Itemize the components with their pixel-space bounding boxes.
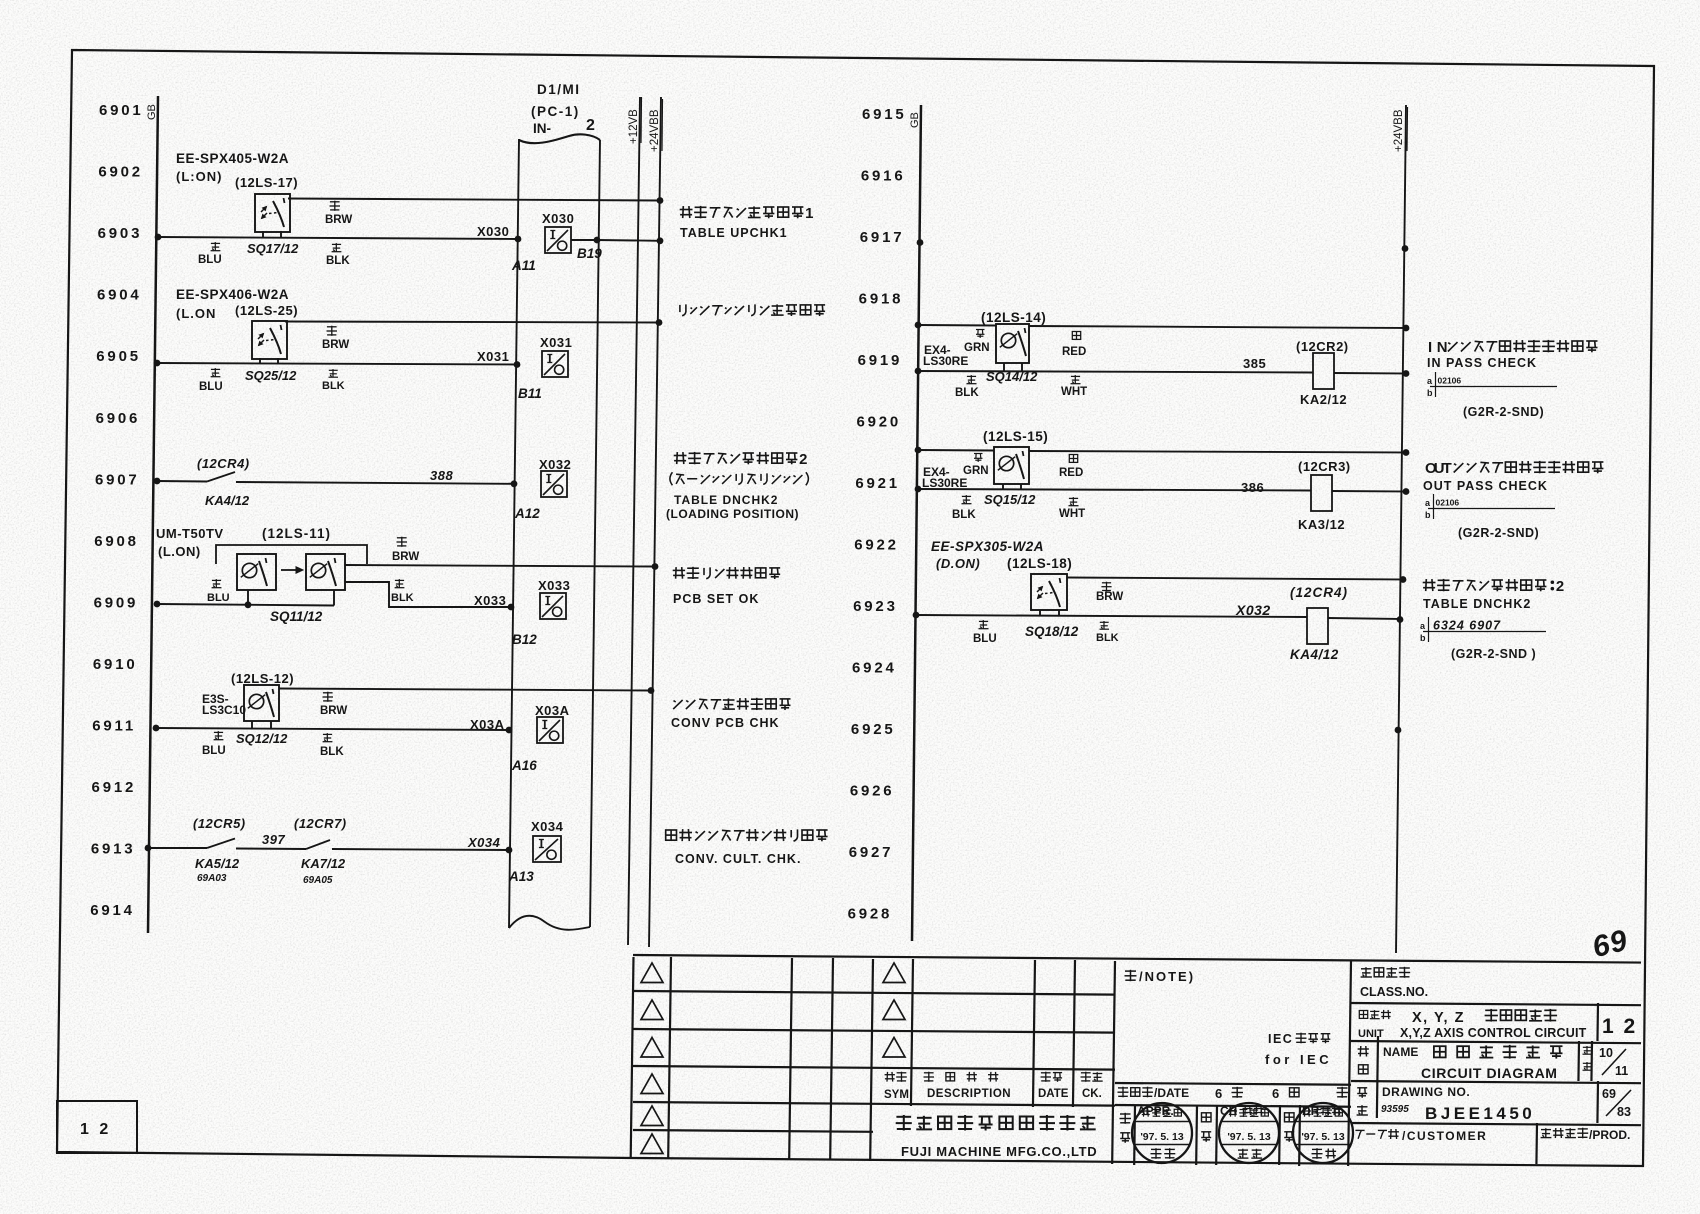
svg-text:CONV PCB CHK: CONV PCB CHK	[671, 716, 780, 730]
wire 6913 c	[332, 849, 509, 850]
sheet number box 12	[57, 1101, 137, 1153]
svg-text:for IEC: for IEC	[1265, 1052, 1332, 1067]
svg-text:X033: X033	[538, 578, 570, 593]
node X034	[506, 847, 513, 854]
label 10/11	[1599, 1046, 1628, 1078]
row label 6928	[848, 906, 893, 923]
svg-text:EE-SPX305-W2A: EE-SPX305-W2A	[931, 539, 1044, 554]
wire 6923 top	[1067, 578, 1403, 580]
svg-text:A13: A13	[508, 869, 534, 884]
wire 6907 a	[157, 480, 207, 483]
label D1/MI	[537, 82, 581, 97]
class v 1351	[1348, 961, 1351, 1166]
svg-text:11: 11	[1615, 1064, 1628, 1078]
label (PC-1)	[531, 104, 580, 119]
svg-text:6902: 6902	[98, 164, 143, 181]
I/O module X033	[540, 593, 566, 619]
I/O module X032	[541, 471, 567, 497]
wire 6919 main b	[1334, 372, 1406, 375]
svg-text:(12CR4): (12CR4)	[197, 456, 250, 471]
label CIRCUIT DIAGRAM	[1421, 1065, 1558, 1081]
v 12 box	[1596, 1003, 1599, 1041]
I/O module X03A	[537, 717, 563, 743]
pin label A11	[511, 258, 536, 273]
annotation 6907 en1	[674, 493, 778, 507]
label (12CR4) left	[197, 456, 250, 471]
svg-text:(12LS-18): (12LS-18)	[1007, 556, 1072, 571]
svg-text:BLU: BLU	[202, 745, 226, 757]
label CHECK	[1220, 1104, 1264, 1118]
label X032 module	[539, 457, 571, 472]
annotation 6921 relay type	[1458, 526, 1539, 540]
label LS3C10	[202, 703, 246, 717]
svg-text:N: N	[1437, 340, 1448, 356]
svg-text:(12LS-14): (12LS-14)	[981, 310, 1046, 325]
label +12VB	[628, 97, 642, 144]
label (12CR4) coil	[1290, 585, 1348, 600]
revision table v 671	[668, 957, 671, 1159]
label (L.ON) 6909	[158, 544, 201, 559]
row label 6920	[856, 414, 901, 431]
photo sensor SQ25/12 (12LS-25)	[252, 321, 287, 359]
svg-text:6907: 6907	[95, 471, 140, 488]
wire 6921 main a	[918, 489, 1311, 491]
annotation 6921 en	[1423, 479, 1548, 493]
note IEC jp	[1268, 1032, 1330, 1046]
node 6919 top +24VBB	[1403, 325, 1410, 332]
crossref 6923	[1420, 617, 1546, 643]
stamp DR	[1293, 1103, 1353, 1163]
svg-text:UNIT: UNIT	[1358, 1028, 1384, 1040]
label SQ11/12	[270, 609, 323, 624]
node 6919 main +24VBB	[1403, 370, 1410, 377]
row label 6916	[861, 168, 906, 185]
svg-text:(LOADING POSITION): (LOADING POSITION)	[666, 507, 799, 521]
label WHT 6919	[1061, 375, 1087, 398]
svg-text:KA4/12: KA4/12	[205, 493, 250, 508]
label (L.ON	[176, 306, 216, 321]
node 6921 main +24VBB	[1403, 488, 1410, 495]
label DR	[1302, 1104, 1342, 1118]
svg-text:X03A: X03A	[535, 703, 570, 718]
svg-text:(PC-1): (PC-1)	[531, 104, 580, 119]
label X03A wire	[470, 717, 505, 732]
node 6905 BRW at +24VBB	[656, 319, 663, 326]
label 6 month	[1272, 1086, 1299, 1101]
right bus GB	[912, 105, 921, 941]
svg-text:BLK: BLK	[952, 509, 976, 521]
svg-text:DATE: DATE	[1038, 1088, 1069, 1100]
node 6903 rail	[155, 234, 162, 241]
v name col	[1377, 1036, 1378, 1118]
label APPROVE col	[1120, 1113, 1132, 1143]
row label 6926	[850, 783, 895, 800]
svg-text:LS30RE: LS30RE	[923, 354, 968, 368]
svg-text:6: 6	[1272, 1086, 1279, 1101]
label EX4- 6921	[923, 465, 950, 479]
svg-text:BLU: BLU	[198, 254, 222, 266]
label LS30RE 6921	[922, 476, 967, 490]
wire 6903 brown to +24VBB	[288, 199, 660, 201]
svg-text:6901: 6901	[99, 102, 144, 119]
svg-text:RED: RED	[1059, 467, 1083, 479]
svg-text:X032: X032	[1235, 602, 1271, 618]
label X034 module	[531, 819, 564, 834]
row label 6913	[91, 841, 136, 858]
stamp col v 1300	[1298, 1105, 1301, 1166]
node 6909 BRW at +24VBB	[652, 563, 659, 570]
svg-text:IEC: IEC	[1268, 1032, 1293, 1046]
node 6921 top +24VBB	[1403, 449, 1410, 456]
label (12LS-11)	[262, 526, 331, 541]
label GB left	[146, 104, 158, 120]
svg-text:IN-: IN-	[533, 121, 551, 136]
svg-text:X034: X034	[531, 819, 564, 834]
beam arrow 6909	[281, 567, 303, 573]
I/O module X034	[533, 836, 561, 862]
svg-text:BLK: BLK	[326, 255, 350, 267]
svg-text:SQ17/12: SQ17/12	[247, 241, 299, 256]
svg-text:1 2: 1 2	[1602, 1015, 1637, 1038]
stamp col v 1280	[1278, 1105, 1281, 1165]
company name en	[901, 1144, 1097, 1159]
label CHECK col	[1201, 1113, 1211, 1142]
label X033 module	[538, 578, 570, 593]
svg-text:(12LS-11): (12LS-11)	[262, 526, 331, 541]
label NAME	[1383, 1045, 1563, 1059]
svg-text:93595: 93595	[1381, 1104, 1409, 1115]
svg-text:388: 388	[430, 468, 453, 483]
svg-text:6925: 6925	[851, 721, 896, 738]
revision table v 873	[870, 959, 873, 1161]
pin label A13	[508, 869, 534, 884]
stamp CHECK	[1219, 1103, 1279, 1163]
svg-text:A12: A12	[514, 506, 540, 521]
svg-text:X034: X034	[467, 835, 501, 850]
label BRW 6923	[1096, 582, 1123, 603]
title line date row top	[1115, 1083, 1351, 1085]
label BLK 6905	[322, 369, 345, 392]
row label 6915	[862, 106, 907, 123]
svg-text:6904: 6904	[97, 287, 142, 304]
svg-text:BLK: BLK	[391, 592, 414, 604]
annotation 6907 jp2	[670, 472, 808, 485]
node 6919 rail	[915, 368, 922, 375]
label BLK 6923	[1096, 621, 1119, 644]
svg-text:(L:ON): (L:ON)	[176, 169, 222, 184]
label date row	[1118, 1086, 1190, 1100]
svg-text:+24VBB: +24VBB	[649, 109, 661, 152]
label BRW 6903	[325, 201, 352, 226]
stamp col v 1217	[1215, 1105, 1218, 1165]
wire 6903 to +24VBB	[597, 239, 660, 242]
label SQ15/12	[984, 492, 1036, 507]
svg-text:83: 83	[1617, 1105, 1631, 1119]
svg-text:6917: 6917	[860, 229, 905, 246]
svg-text:B11: B11	[518, 386, 542, 401]
svg-text:1 2: 1 2	[80, 1121, 111, 1138]
wire 6919 main a	[918, 371, 1313, 373]
revision table v 833	[830, 958, 833, 1160]
svg-text:EE-SPX406-W2A: EE-SPX406-W2A	[176, 287, 289, 302]
annotation 6911 en	[671, 716, 780, 730]
label GRN 6921	[963, 454, 989, 478]
svg-text:69A05: 69A05	[303, 875, 333, 886]
svg-text:b: b	[1420, 633, 1426, 643]
connector D1/M1 left edge	[509, 139, 519, 928]
row label 6917	[860, 229, 905, 246]
label X034 wire	[467, 835, 501, 850]
svg-text:BRW: BRW	[320, 705, 347, 717]
node 6905 rail	[154, 360, 161, 367]
revision triangle L3	[641, 1038, 663, 1058]
row label 6908	[94, 533, 139, 550]
svg-text:GB: GB	[146, 104, 158, 120]
svg-text:2: 2	[1556, 579, 1564, 595]
node 6921 rail	[915, 486, 922, 493]
annotation 6923 jp	[1423, 579, 1565, 595]
v 10-11 box	[1590, 1041, 1593, 1081]
wire 6909 blk step	[345, 582, 511, 607]
svg-text:BLK: BLK	[955, 387, 979, 399]
I/O module X030	[545, 227, 571, 253]
annotation 6921 jp	[1425, 461, 1603, 477]
wire 6909 main	[157, 604, 334, 606]
stamp col v 1135	[1133, 1105, 1136, 1165]
crossref 6919	[1427, 372, 1557, 398]
node 6917 +24VBB	[1402, 245, 1409, 252]
annotation 6911 jp	[673, 698, 790, 710]
svg-text:PCB SET OK: PCB SET OK	[673, 592, 759, 606]
note label	[1125, 969, 1196, 984]
svg-text:SQ15/12: SQ15/12	[984, 492, 1036, 507]
svg-text:69: 69	[1602, 1087, 1616, 1101]
svg-text:6906: 6906	[96, 410, 141, 427]
revision table v 633	[631, 957, 634, 1158]
revision table v 792	[789, 958, 792, 1160]
svg-text:6923: 6923	[853, 598, 898, 615]
label prod	[1541, 1128, 1631, 1142]
svg-text:/NOTE): /NOTE)	[1139, 969, 1195, 984]
svg-text:6920: 6920	[856, 414, 901, 431]
svg-text:X031: X031	[540, 335, 572, 350]
wire number 385	[1243, 356, 1266, 371]
annotation 6919 jp	[1428, 340, 1598, 356]
photo sensor SQ15/12 (12LS-15)	[994, 447, 1029, 484]
label BRW 6905	[322, 326, 349, 351]
title block line row1	[633, 991, 1115, 995]
label day	[1337, 1087, 1349, 1098]
wire number 386	[1241, 480, 1264, 495]
svg-text:(D.ON): (D.ON)	[936, 556, 980, 571]
label (12CR2)	[1296, 339, 1349, 354]
label X030 module	[542, 211, 574, 226]
label BLK 6909	[391, 579, 414, 604]
annotation 6913 jp	[666, 829, 828, 841]
title block top edge	[633, 955, 1641, 963]
svg-text:KA2/12: KA2/12	[1300, 392, 1347, 407]
label +24VBB right	[1393, 107, 1408, 152]
svg-text:6928: 6928	[848, 906, 893, 923]
row label 6911	[92, 718, 136, 735]
svg-text:LS30RE: LS30RE	[922, 476, 967, 490]
label KA3/12	[1298, 517, 1345, 532]
svg-text:B12: B12	[512, 632, 537, 647]
v 69-83 box	[1596, 1081, 1599, 1123]
row label 6902	[98, 164, 143, 181]
row label 6912	[92, 779, 137, 796]
label KA2/12	[1300, 392, 1347, 407]
I/O module X031	[542, 351, 568, 377]
row label 6910	[93, 656, 138, 673]
svg-text:TABLE UPCHK1: TABLE UPCHK1	[680, 226, 788, 240]
name line bottom	[1351, 1081, 1641, 1083]
crossref 6921	[1425, 494, 1555, 520]
node 6913 rail	[145, 845, 152, 852]
label KA4/12 coil	[1290, 647, 1339, 662]
label KA5/12	[195, 856, 240, 871]
svg-text:NAME: NAME	[1383, 1045, 1418, 1059]
svg-text:6913: 6913	[91, 841, 136, 858]
svg-text:RED: RED	[1062, 346, 1086, 358]
svg-text:6905: 6905	[96, 348, 141, 365]
title block line row3	[633, 1066, 1115, 1070]
revision triangle L2	[641, 1000, 663, 1020]
handwritten page number 69	[1589, 924, 1631, 965]
label X033 wire	[474, 593, 506, 608]
wire 6903 main	[158, 237, 518, 239]
svg-text:SQ18/12: SQ18/12	[1025, 624, 1079, 639]
svg-text:CLASS.NO.: CLASS.NO.	[1360, 985, 1428, 999]
svg-text:WHT: WHT	[1061, 386, 1087, 398]
svg-text:6921: 6921	[855, 475, 900, 492]
svg-text:OUT PASS CHECK: OUT PASS CHECK	[1423, 479, 1548, 493]
left bus GB	[148, 96, 158, 933]
svg-text:KA7/12: KA7/12	[301, 856, 346, 871]
svg-text:(G2R-2-SND): (G2R-2-SND)	[1458, 526, 1539, 540]
node 6923 top +24VBB	[1400, 576, 1407, 583]
svg-text:/DATE: /DATE	[1154, 1086, 1189, 1100]
svg-text:6910: 6910	[93, 656, 138, 673]
node X030	[515, 236, 522, 243]
svg-text:BRW: BRW	[325, 214, 352, 226]
label RED 6921	[1059, 455, 1083, 480]
svg-text:SQ14/12: SQ14/12	[986, 369, 1038, 384]
wire 6921 main b	[1332, 490, 1406, 493]
label page col	[1583, 1046, 1593, 1070]
svg-text:TABLE DNCHK2: TABLE DNCHK2	[674, 493, 778, 507]
sensor pins 6923	[1040, 610, 1059, 616]
wire number 397	[262, 832, 285, 847]
annotation 6913 en	[675, 852, 801, 866]
wire 6921 top a	[918, 449, 994, 452]
label X030 wire	[477, 224, 509, 239]
drawing line bottom	[1351, 1123, 1641, 1125]
row label 6903	[98, 225, 143, 242]
svg-text:GRN: GRN	[964, 342, 990, 354]
label (D.ON)	[936, 556, 980, 571]
annotation 6923 relay type	[1451, 647, 1536, 661]
svg-text:6911: 6911	[92, 718, 136, 735]
revision triangle L1	[641, 963, 663, 983]
annotation 6907 en2	[666, 507, 799, 521]
label (12LS-17)	[235, 175, 298, 190]
label DRAWING NO	[1382, 1085, 1470, 1099]
label BLU 6905	[199, 368, 223, 393]
svg-text:6922: 6922	[854, 537, 899, 554]
svg-text:CIRCUIT DIAGRAM: CIRCUIT DIAGRAM	[1421, 1065, 1558, 1081]
svg-text:SQ11/12: SQ11/12	[270, 609, 323, 624]
wire 6907 b	[236, 482, 514, 484]
revision triangle L5	[641, 1106, 663, 1126]
label EX4- 6919	[924, 343, 951, 357]
label 93595	[1381, 1104, 1409, 1115]
label unit jp	[1359, 1009, 1557, 1026]
svg-text:(G2R-2-SND ): (G2R-2-SND )	[1451, 647, 1536, 661]
pin label B12	[512, 632, 537, 647]
title line date row bottom	[1115, 1105, 1351, 1107]
v prod box	[1535, 1123, 1538, 1164]
node 6909 rail	[154, 601, 161, 608]
photo sensor SQ17/12 (12LS-17)	[255, 194, 290, 232]
+12VB bus	[628, 97, 640, 945]
node 6919 top rail	[915, 322, 922, 329]
annotation 6903 jp	[680, 206, 814, 222]
svg-text:FUJI MACHINE MFG.CO.,LTD: FUJI MACHINE MFG.CO.,LTD	[901, 1144, 1097, 1159]
label (12LS-14)	[981, 310, 1046, 325]
relay coil KA3/12 (12CR3)	[1311, 475, 1332, 511]
label KA4/12 left	[205, 493, 250, 508]
note for IEC	[1265, 1052, 1332, 1067]
label 69A03	[197, 873, 227, 884]
svg-text:X033: X033	[474, 593, 506, 608]
label E3S-	[202, 692, 229, 706]
svg-text:386: 386	[1241, 480, 1264, 495]
contact 12CR5	[207, 839, 235, 849]
label (12LS-12)	[231, 671, 294, 686]
svg-text:(12CR3): (12CR3)	[1298, 459, 1351, 474]
row label 6922	[854, 537, 899, 554]
wire 6919 top a	[918, 324, 996, 327]
label (L:ON)	[176, 169, 222, 184]
node 6917 rail	[917, 239, 924, 246]
photo sensor SQ11/12 tx	[237, 554, 276, 590]
svg-text:6927: 6927	[849, 844, 894, 861]
pin label A16	[511, 758, 537, 773]
svg-text:/CUSTOMER: /CUSTOMER	[1402, 1129, 1487, 1143]
revision triangle L4	[641, 1074, 663, 1094]
wire 6921 top b	[1029, 451, 1406, 453]
svg-text:6926: 6926	[850, 783, 895, 800]
svg-text:(12LS-17): (12LS-17)	[235, 175, 298, 190]
sensor pins 6903	[263, 231, 281, 238]
wire 6911 brw	[279, 689, 651, 691]
node X031	[514, 361, 521, 368]
svg-text:'97. 5. 13: '97. 5. 13	[1227, 1131, 1271, 1143]
svg-text:385: 385	[1243, 356, 1266, 371]
svg-text:X,Y,Z AXIS CONTROL CIRCUIT: X,Y,Z AXIS CONTROL CIRCUIT	[1400, 1026, 1587, 1040]
svg-text:(12CR5): (12CR5)	[193, 816, 246, 831]
annotation 6919 relay type	[1463, 405, 1544, 419]
label (12CR3)	[1298, 459, 1351, 474]
svg-text:6918: 6918	[859, 291, 904, 308]
svg-text:(12LS-12): (12LS-12)	[231, 671, 294, 686]
row label 6909	[94, 594, 139, 611]
wire 6913 b	[236, 848, 306, 851]
svg-text:A11: A11	[511, 258, 536, 273]
contact 12CR7	[306, 840, 330, 849]
label GB right	[909, 112, 921, 128]
